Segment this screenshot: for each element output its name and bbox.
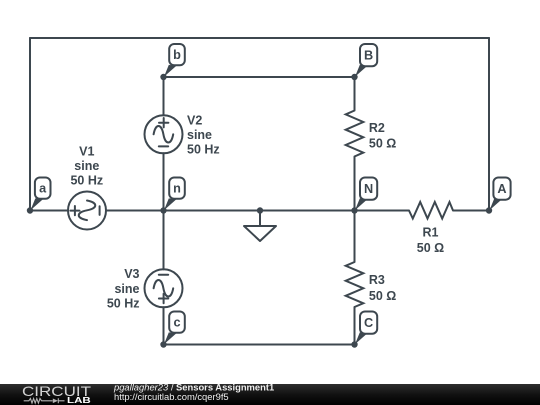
wire b to B [164, 76, 355, 78]
node b [164, 44, 185, 77]
node c [164, 312, 185, 345]
svg-text:sine: sine [74, 159, 99, 173]
node N [355, 178, 377, 211]
svg-text:LAB: LAB [67, 395, 91, 405]
junction dot C [351, 341, 357, 347]
wire V2 to n [163, 153, 165, 210]
junction dot c [160, 341, 166, 347]
junction dot a [27, 207, 33, 213]
wire c to C [164, 344, 355, 346]
svg-text:R1: R1 [423, 226, 439, 240]
svg-text:R2: R2 [369, 121, 385, 135]
voltage source V3 [145, 269, 183, 307]
node B [355, 44, 377, 77]
svg-text:C: C [364, 316, 373, 330]
svg-text:V2: V2 [187, 114, 202, 128]
node C [355, 312, 377, 345]
svg-text:50 Ω: 50 Ω [369, 289, 396, 303]
svg-text:50 Hz: 50 Hz [70, 174, 103, 188]
label V2 value [187, 114, 220, 157]
logo resistor squiggle [24, 399, 53, 404]
svg-text:N: N [364, 182, 373, 196]
wire B to R2 [354, 77, 356, 111]
label R3 value [369, 273, 396, 303]
svg-text:R3: R3 [369, 273, 385, 287]
svg-text:V3: V3 [124, 267, 139, 281]
ground [244, 226, 276, 241]
wire V3 to c [163, 307, 165, 344]
svg-text:http://circuitlab.com/cqer9f5: http://circuitlab.com/cqer9f5 [114, 391, 229, 402]
svg-text:b: b [173, 48, 181, 62]
junction dot B [351, 74, 357, 80]
junction dot n [160, 207, 166, 213]
svg-text:c: c [173, 315, 180, 329]
svg-text:sine: sine [114, 282, 139, 296]
voltage source V1 [68, 192, 106, 230]
svg-text:50 Hz: 50 Hz [187, 142, 220, 156]
wire rail a to V1 [30, 210, 68, 212]
junction dot A [486, 207, 492, 213]
junction dot b [160, 74, 166, 80]
svg-text:V1: V1 [79, 144, 94, 158]
wire rail R1 to A [453, 210, 489, 212]
wire rail V1 to n [106, 210, 164, 212]
node a [31, 178, 51, 211]
wire left frame [29, 38, 31, 211]
svg-text:B: B [364, 49, 373, 63]
svg-text:50 Ω: 50 Ω [417, 241, 444, 255]
wire rail ground to N [260, 210, 355, 212]
junction dot N [351, 207, 357, 213]
wire top frame [30, 37, 489, 39]
label V3 value [107, 267, 140, 311]
wire b to V2 [163, 77, 165, 115]
resistor R3 [346, 262, 364, 307]
svg-text:n: n [173, 181, 181, 195]
label R1 value [417, 226, 444, 255]
wire rail N to R1 [355, 210, 410, 212]
svg-text:50 Hz: 50 Hz [107, 297, 140, 311]
svg-text:a: a [39, 181, 47, 195]
wire R2 to N [354, 157, 356, 211]
junction dot ground [257, 207, 263, 213]
label V1 value [70, 144, 103, 187]
node A [490, 178, 511, 211]
wire rail n to ground [164, 210, 261, 212]
wire R3 to C [354, 307, 356, 345]
voltage source V2 [145, 115, 183, 153]
node n [164, 178, 185, 211]
wire right frame [488, 38, 490, 211]
resistor R1 [409, 202, 453, 219]
wire n to V3 [163, 211, 165, 270]
svg-text:sine: sine [187, 128, 212, 142]
logo diode [53, 399, 58, 404]
label R2 value [369, 121, 396, 150]
svg-text:A: A [497, 182, 506, 196]
svg-text:50 Ω: 50 Ω [369, 136, 396, 150]
resistor R2 [346, 111, 364, 157]
wire N to R3 [354, 211, 356, 263]
wire ground stem [259, 211, 261, 227]
